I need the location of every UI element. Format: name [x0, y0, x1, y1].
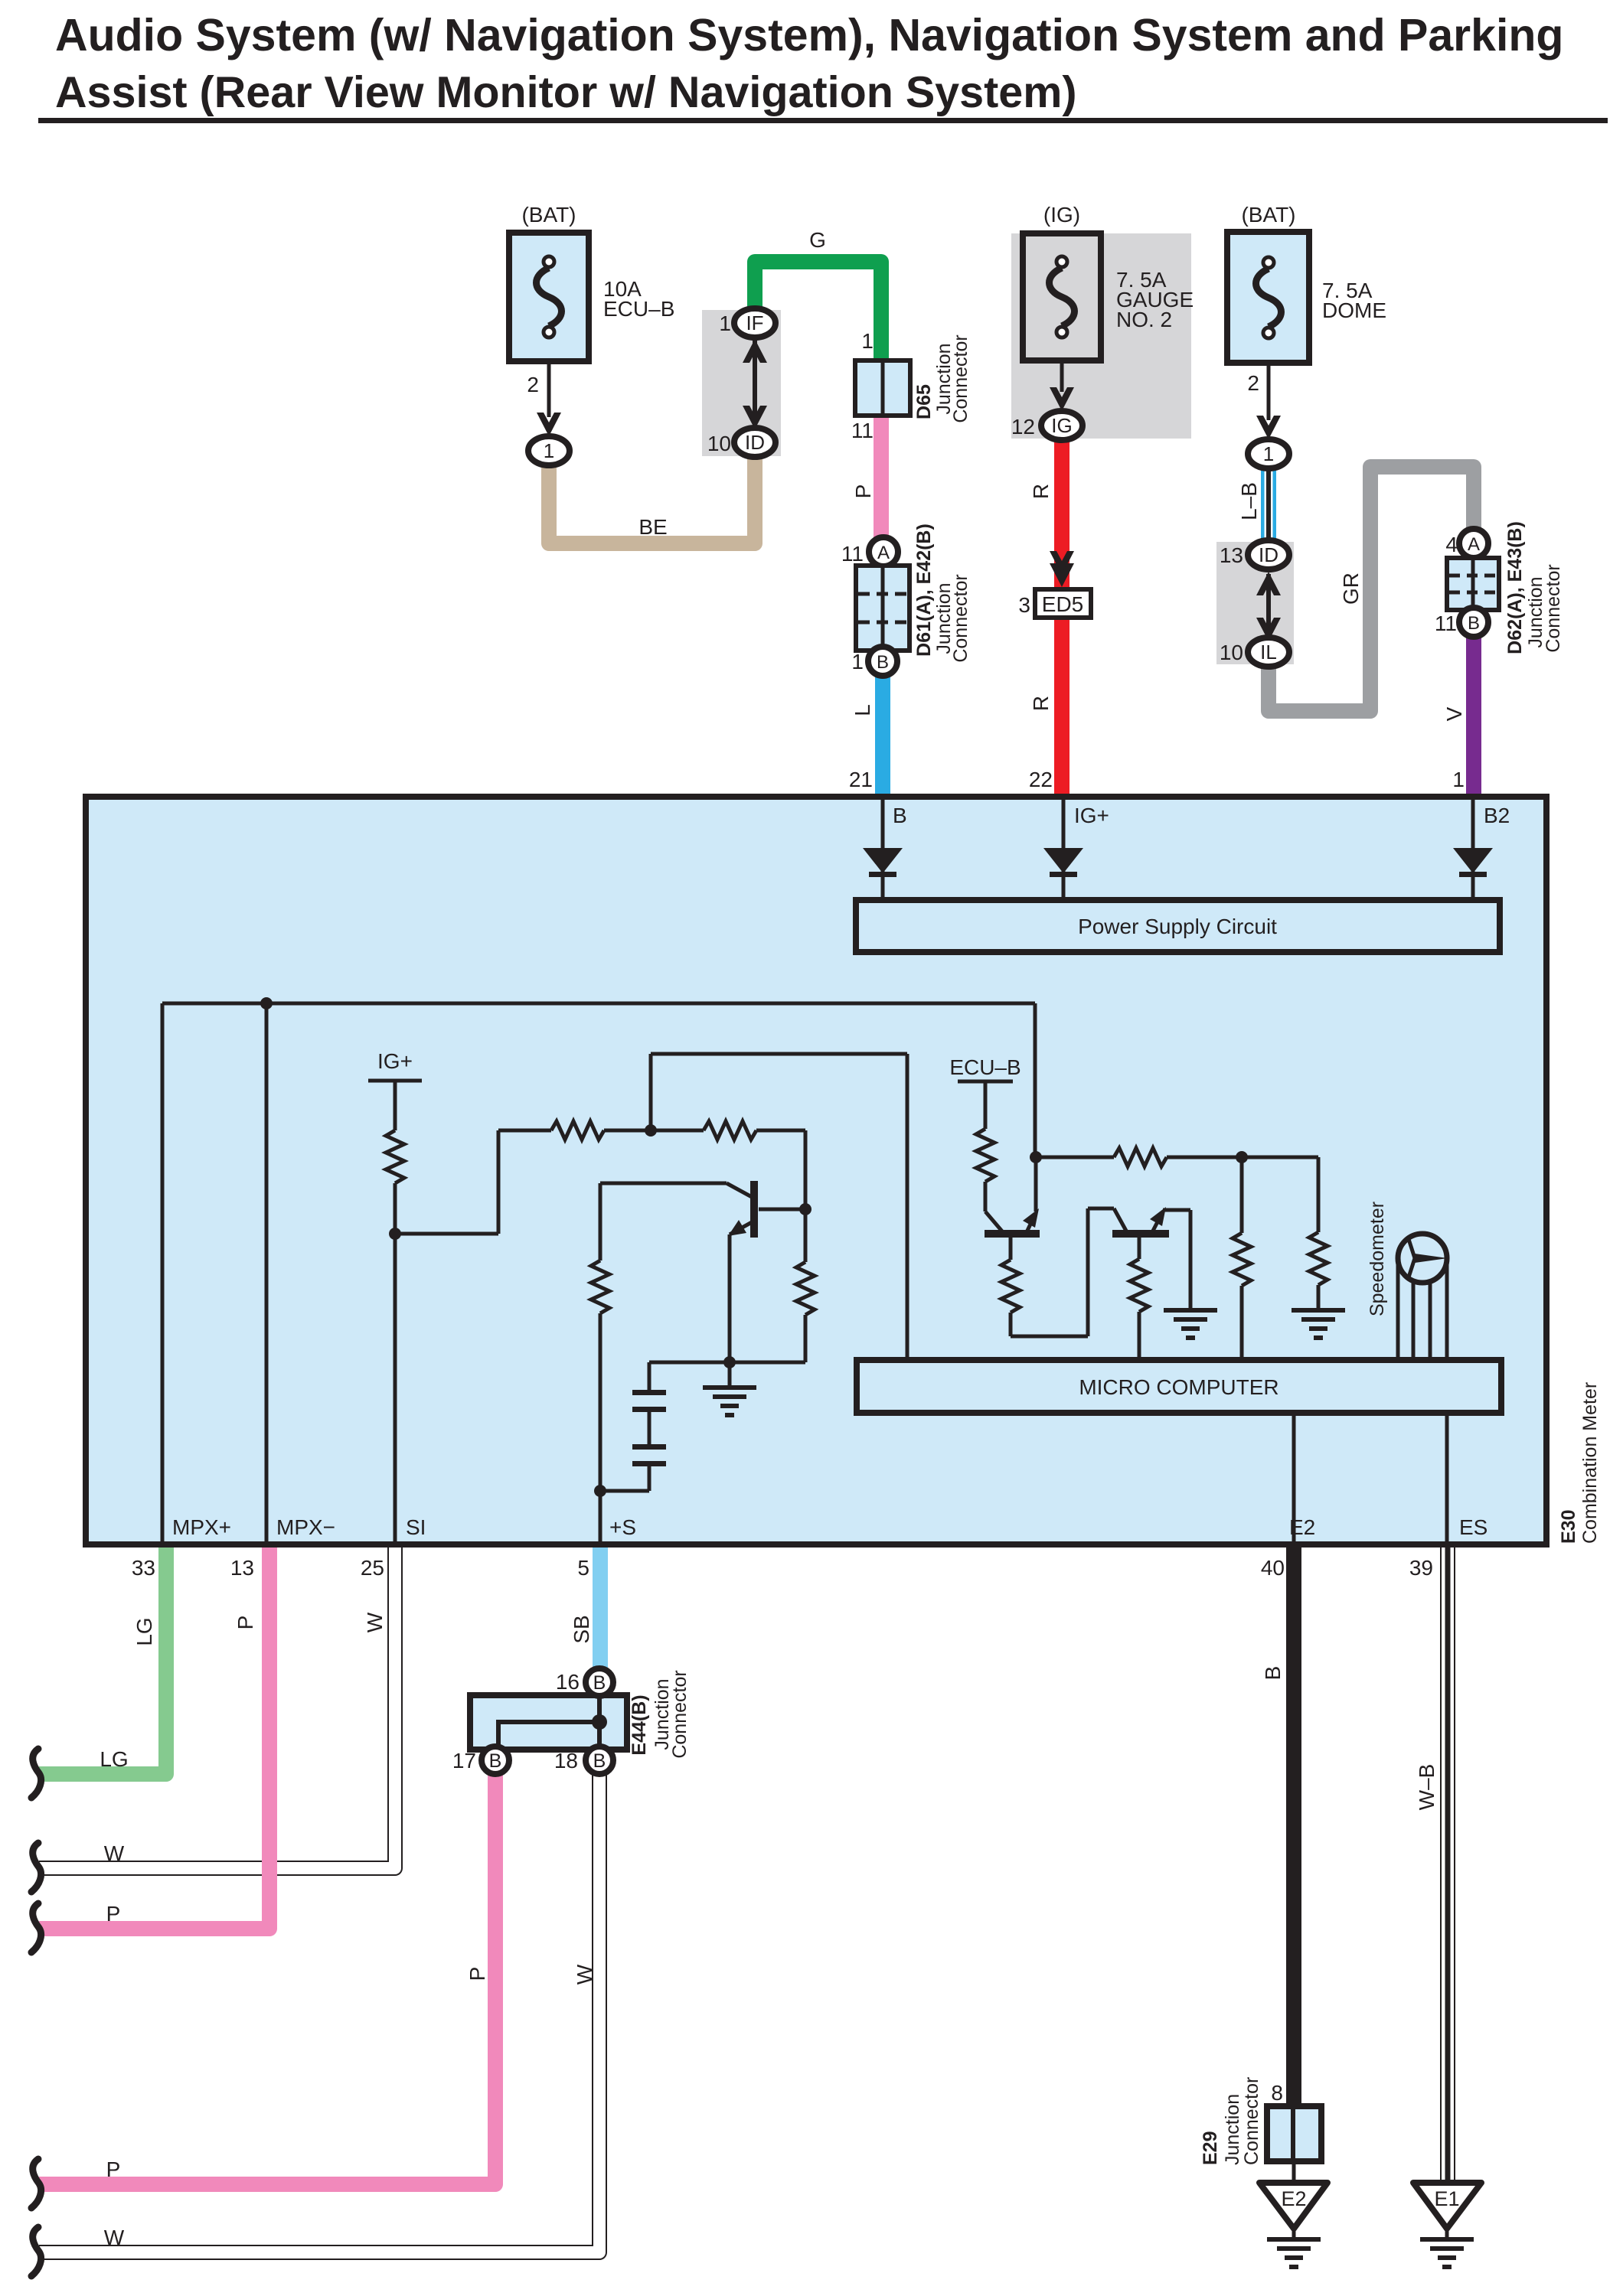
svg-text:L–B: L–B [1237, 482, 1261, 520]
svg-text:2: 2 [527, 373, 539, 396]
svg-text:Junction: Junction [1222, 2094, 1243, 2165]
svg-text:DOME: DOME [1322, 298, 1386, 322]
svg-text:SI: SI [406, 1515, 426, 1539]
svg-text:E30: E30 [1558, 1510, 1579, 1544]
svg-text:MPX+: MPX+ [172, 1515, 231, 1539]
svg-text:11: 11 [841, 542, 864, 566]
svg-text:B: B [489, 1750, 502, 1772]
svg-text:4: 4 [1445, 533, 1458, 556]
svg-text:Combination Meter: Combination Meter [1579, 1382, 1601, 1544]
svg-text:NO. 2: NO. 2 [1116, 308, 1172, 331]
svg-text:D61(A), E42(B): D61(A), E42(B) [913, 523, 935, 657]
svg-text:21: 21 [849, 768, 873, 791]
svg-text:17: 17 [452, 1749, 476, 1773]
svg-text:W: W [104, 1841, 125, 1865]
svg-text:ECU–B: ECU–B [949, 1055, 1020, 1079]
svg-text:1: 1 [861, 329, 874, 353]
svg-text:10: 10 [1220, 641, 1243, 664]
svg-text:B: B [1261, 1666, 1285, 1681]
svg-text:GR: GR [1339, 572, 1363, 605]
svg-text:11: 11 [851, 419, 874, 442]
svg-text:L: L [851, 704, 874, 716]
svg-text:3: 3 [1018, 593, 1030, 617]
svg-text:W–B: W–B [1415, 1764, 1438, 1811]
svg-text:B: B [593, 1750, 606, 1772]
svg-text:D62(A), E43(B): D62(A), E43(B) [1504, 521, 1526, 654]
svg-text:MPX−: MPX− [276, 1515, 335, 1539]
svg-text:(BAT): (BAT) [521, 203, 576, 227]
svg-text:E44(B): E44(B) [629, 1694, 650, 1755]
svg-text:Connector: Connector [669, 1670, 691, 1758]
svg-text:5: 5 [577, 1556, 589, 1580]
svg-text:E2: E2 [1289, 1515, 1315, 1539]
svg-text:B: B [1468, 613, 1480, 634]
svg-text:LG: LG [100, 1747, 128, 1771]
svg-text:ECU–B: ECU–B [603, 297, 674, 321]
svg-text:8: 8 [1271, 2081, 1283, 2105]
svg-text:B: B [893, 804, 907, 827]
svg-text:A: A [877, 543, 890, 563]
svg-text:Connector: Connector [950, 574, 972, 662]
svg-text:13: 13 [1220, 543, 1243, 567]
svg-text:A: A [1468, 534, 1480, 555]
svg-text:LG: LG [132, 1617, 156, 1645]
svg-text:1: 1 [1263, 442, 1274, 465]
svg-text:Connector: Connector [1241, 2077, 1262, 2165]
svg-text:IL: IL [1260, 641, 1277, 664]
svg-text:Power Supply Circuit: Power Supply Circuit [1078, 915, 1277, 938]
svg-text:E1: E1 [1434, 2187, 1459, 2210]
svg-text:ED5: ED5 [1042, 592, 1083, 616]
svg-text:P: P [233, 1616, 257, 1630]
svg-text:10: 10 [707, 432, 731, 455]
svg-text:E29: E29 [1200, 2131, 1221, 2165]
svg-text:IG+: IG+ [377, 1049, 413, 1073]
svg-text:W: W [363, 1612, 387, 1632]
svg-text:18: 18 [554, 1749, 578, 1773]
svg-text:33: 33 [132, 1556, 155, 1580]
svg-text:V: V [1442, 706, 1466, 721]
svg-text:11: 11 [1435, 612, 1457, 635]
svg-text:P: P [851, 484, 875, 499]
svg-text:(IG): (IG) [1043, 203, 1080, 227]
svg-text:ES: ES [1459, 1515, 1487, 1539]
svg-text:R: R [1029, 696, 1053, 711]
svg-text:P: P [106, 2157, 121, 2181]
svg-text:13: 13 [230, 1556, 254, 1580]
svg-text:Assist (Rear View Monitor w/ N: Assist (Rear View Monitor w/ Navigation … [55, 68, 1077, 117]
svg-text:B: B [877, 652, 889, 673]
svg-text:Speedometer: Speedometer [1367, 1202, 1388, 1316]
svg-text:BE: BE [638, 515, 667, 539]
svg-text:12: 12 [1011, 415, 1035, 439]
svg-text:E2: E2 [1281, 2187, 1306, 2210]
svg-text:D65: D65 [913, 384, 935, 419]
svg-text:R: R [1029, 484, 1053, 499]
svg-text:Connector: Connector [950, 334, 972, 422]
svg-text:1: 1 [544, 439, 554, 462]
svg-text:SB: SB [570, 1615, 593, 1643]
svg-text:ID: ID [745, 431, 765, 454]
svg-text:B: B [593, 1672, 606, 1694]
svg-text:G: G [809, 228, 826, 252]
svg-text:1: 1 [719, 311, 731, 335]
svg-text:W: W [104, 2226, 125, 2249]
svg-text:B2: B2 [1484, 804, 1510, 827]
svg-text:+S: +S [609, 1515, 636, 1539]
svg-text:40: 40 [1261, 1556, 1285, 1580]
svg-text:MICRO COMPUTER: MICRO COMPUTER [1079, 1375, 1278, 1399]
svg-text:1: 1 [851, 650, 864, 673]
svg-text:Connector: Connector [1543, 564, 1564, 652]
svg-text:W: W [573, 1964, 596, 1985]
svg-text:ID: ID [1259, 543, 1278, 566]
svg-text:Audio System (w/ Navigation Sy: Audio System (w/ Navigation System), Nav… [55, 10, 1563, 60]
svg-text:1: 1 [1452, 768, 1465, 791]
svg-text:2: 2 [1247, 371, 1259, 395]
svg-text:IG+: IG+ [1074, 804, 1109, 827]
svg-text:IF: IF [746, 311, 763, 334]
svg-text:22: 22 [1029, 768, 1053, 791]
svg-text:16: 16 [556, 1670, 580, 1694]
svg-text:P: P [106, 1902, 121, 1926]
svg-text:39: 39 [1409, 1556, 1433, 1580]
svg-text:25: 25 [361, 1556, 384, 1580]
svg-text:P: P [465, 1967, 489, 1981]
svg-text:(BAT): (BAT) [1241, 203, 1295, 227]
svg-text:IG: IG [1051, 414, 1072, 437]
